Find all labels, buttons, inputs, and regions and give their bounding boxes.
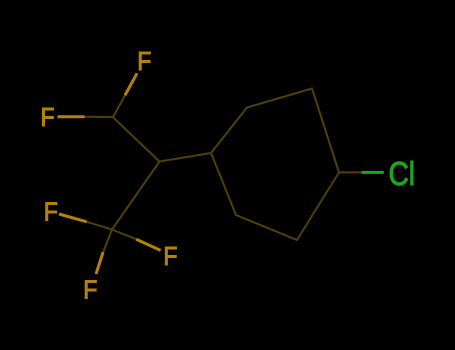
- svg-text:F: F: [137, 46, 151, 76]
- wire: bond C3-F3 bottom, fluorine half: [96, 252, 103, 274]
- svg-text:F: F: [83, 275, 97, 305]
- wire: bond C3-F2 right, fluorine half: [136, 239, 160, 250]
- wire: bond ring-Cl, chlorine half: [362, 171, 384, 174]
- wire: bond C3-F2 right, carbon half: [112, 230, 136, 240]
- wire: bond C3-F1 upper-left, carbon half: [87, 222, 112, 230]
- svg-text:F: F: [163, 241, 177, 271]
- svg-text:Cl: Cl: [389, 155, 416, 192]
- wire: bond C1-F(left), carbon half: [85, 116, 114, 118]
- benzene ring: [211, 89, 339, 241]
- wire: bond C1-C2: [113, 117, 160, 161]
- wire: bond C2-C3: [112, 162, 160, 230]
- wire: bond C1-F(top), fluorine half: [125, 73, 137, 95]
- wire: bond C3-F3 bottom, carbon half: [103, 230, 112, 253]
- wire: bond C1-F(left), fluorine half: [58, 115, 85, 118]
- svg-text:F: F: [44, 197, 58, 227]
- svg-text:F: F: [41, 102, 55, 132]
- wire: bond ring-Cl, carbon half: [339, 171, 362, 173]
- wire: bond C1-F(top), carbon half: [58, 73, 384, 274]
- wire: bond C3-F1 upper-left, fluorine half: [59, 214, 87, 222]
- wire: bond C2-ring: [160, 153, 212, 162]
